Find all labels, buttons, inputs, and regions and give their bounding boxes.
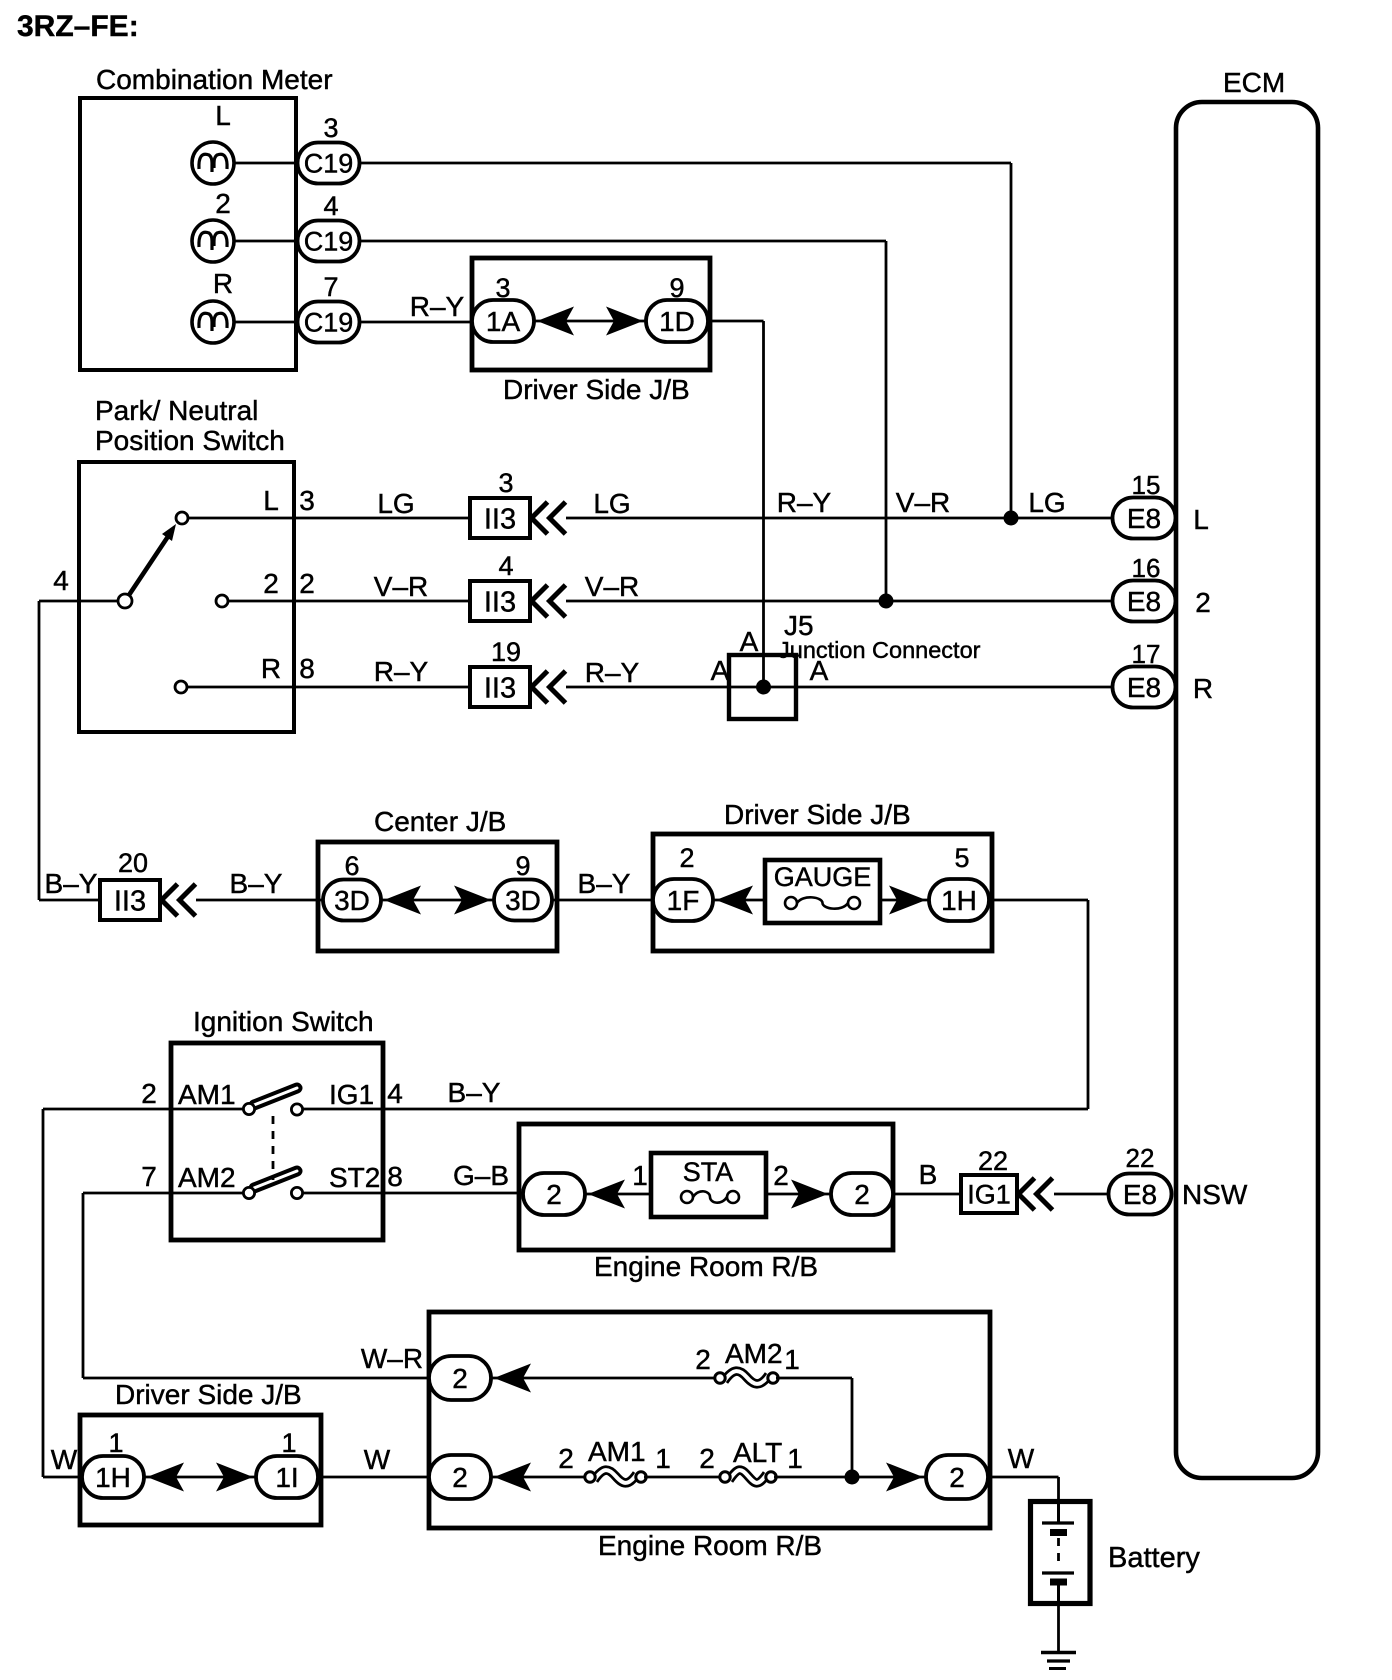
svg-text:9: 9	[515, 851, 530, 881]
svg-text:R: R	[213, 268, 233, 299]
svg-text:B–Y: B–Y	[45, 868, 98, 899]
svg-text:II3: II3	[484, 586, 516, 618]
svg-text:Driver Side J/B: Driver Side J/B	[724, 799, 911, 830]
svg-text:IG1: IG1	[329, 1079, 374, 1110]
svg-text:2: 2	[452, 1363, 468, 1394]
svg-text:22: 22	[978, 1146, 1008, 1176]
svg-text:E8: E8	[1123, 1179, 1157, 1210]
svg-text:Combination Meter: Combination Meter	[96, 64, 333, 95]
svg-text:R–Y: R–Y	[374, 656, 429, 687]
svg-text:R–Y: R–Y	[410, 291, 465, 322]
svg-text:22: 22	[1126, 1143, 1155, 1173]
svg-text:3D: 3D	[505, 885, 541, 916]
svg-text:2: 2	[699, 1443, 715, 1474]
svg-text:2: 2	[949, 1462, 965, 1493]
svg-text:LG: LG	[1028, 487, 1065, 518]
svg-text:IG1: IG1	[967, 1180, 1011, 1210]
svg-text:Battery: Battery	[1108, 1542, 1200, 1574]
svg-text:1: 1	[784, 1344, 800, 1375]
svg-text:LG: LG	[593, 488, 630, 519]
svg-text:R–Y: R–Y	[585, 657, 640, 688]
svg-text:3: 3	[323, 113, 338, 143]
svg-text:AM1: AM1	[588, 1436, 646, 1467]
svg-text:Driver Side J/B: Driver Side J/B	[115, 1379, 302, 1410]
svg-text:2: 2	[679, 843, 694, 873]
svg-text:1D: 1D	[659, 306, 695, 337]
svg-text:3: 3	[299, 485, 315, 516]
svg-text:V–R: V–R	[374, 571, 428, 602]
svg-text:4: 4	[53, 565, 69, 596]
svg-text:V–R: V–R	[896, 487, 950, 518]
svg-text:2: 2	[546, 1179, 562, 1210]
svg-text:1A: 1A	[486, 306, 521, 337]
svg-text:GAUGE: GAUGE	[774, 862, 872, 892]
svg-text:R: R	[1193, 673, 1213, 704]
svg-text:1: 1	[787, 1443, 803, 1474]
svg-text:2: 2	[773, 1160, 789, 1191]
svg-text:2: 2	[263, 568, 279, 599]
svg-text:2: 2	[854, 1179, 870, 1210]
svg-text:II3: II3	[114, 885, 146, 917]
svg-text:5: 5	[954, 843, 969, 873]
svg-text:L: L	[215, 100, 231, 131]
svg-text:W: W	[1008, 1443, 1035, 1474]
svg-text:B–Y: B–Y	[578, 868, 631, 899]
svg-text:A: A	[711, 655, 730, 686]
svg-text:AM2: AM2	[178, 1162, 236, 1193]
svg-text:L: L	[1193, 504, 1209, 535]
svg-text:8: 8	[387, 1161, 403, 1192]
svg-text:8: 8	[299, 653, 315, 684]
svg-text:A: A	[810, 655, 829, 686]
svg-text:15: 15	[1132, 470, 1161, 500]
svg-text:1H: 1H	[95, 1462, 131, 1493]
svg-text:LG: LG	[377, 488, 414, 519]
svg-text:Engine Room R/B: Engine Room R/B	[594, 1251, 818, 1282]
svg-text:1I: 1I	[275, 1462, 298, 1493]
svg-text:E8: E8	[1127, 672, 1161, 703]
svg-text:NSW: NSW	[1182, 1179, 1248, 1210]
svg-text:R: R	[261, 653, 281, 684]
svg-text:II3: II3	[484, 672, 516, 704]
svg-text:2: 2	[695, 1344, 711, 1375]
svg-text:Park/ Neutral: Park/ Neutral	[95, 395, 258, 426]
svg-text:E8: E8	[1127, 586, 1161, 617]
svg-text:17: 17	[1132, 639, 1161, 669]
svg-text:AM1: AM1	[178, 1079, 236, 1110]
svg-text:1: 1	[108, 1428, 123, 1458]
svg-text:3RZ–FE:: 3RZ–FE:	[17, 10, 139, 43]
svg-text:STA: STA	[683, 1157, 734, 1187]
svg-text:16: 16	[1132, 553, 1161, 583]
svg-text:G–B: G–B	[453, 1160, 509, 1191]
svg-text:W: W	[364, 1444, 391, 1475]
svg-text:2: 2	[558, 1443, 574, 1474]
svg-text:1: 1	[281, 1428, 296, 1458]
svg-text:1F: 1F	[667, 885, 700, 916]
svg-text:W–R: W–R	[361, 1343, 423, 1374]
svg-text:II3: II3	[484, 503, 516, 535]
svg-text:Ignition Switch: Ignition Switch	[193, 1006, 374, 1037]
svg-text:V–R: V–R	[585, 571, 639, 602]
svg-text:W: W	[51, 1444, 78, 1475]
svg-text:E8: E8	[1127, 503, 1161, 534]
svg-text:2: 2	[299, 568, 315, 599]
svg-text:4: 4	[387, 1078, 403, 1109]
svg-text:6: 6	[344, 851, 359, 881]
svg-text:4: 4	[323, 191, 338, 221]
svg-text:1: 1	[655, 1443, 671, 1474]
svg-text:3D: 3D	[334, 885, 370, 916]
svg-text:Engine Room R/B: Engine Room R/B	[598, 1530, 822, 1561]
svg-text:L: L	[263, 485, 279, 516]
svg-text:Position Switch: Position Switch	[95, 425, 285, 456]
svg-text:2: 2	[215, 188, 231, 219]
svg-text:1: 1	[632, 1160, 648, 1191]
svg-text:B: B	[919, 1159, 938, 1190]
svg-text:2: 2	[141, 1078, 157, 1109]
svg-text:3: 3	[498, 468, 513, 498]
svg-text:ALT: ALT	[733, 1437, 782, 1468]
svg-text:B–Y: B–Y	[448, 1077, 501, 1108]
svg-text:ECM: ECM	[1223, 67, 1285, 98]
svg-text:Junction Connector: Junction Connector	[778, 637, 981, 663]
svg-text:ST2: ST2	[329, 1162, 380, 1193]
svg-text:C19: C19	[304, 227, 354, 257]
svg-text:AM2: AM2	[725, 1338, 783, 1369]
svg-text:A: A	[740, 626, 759, 657]
svg-text:3: 3	[495, 273, 510, 303]
svg-text:C19: C19	[304, 149, 354, 179]
svg-text:2: 2	[452, 1462, 468, 1493]
svg-text:9: 9	[669, 273, 684, 303]
svg-text:R–Y: R–Y	[777, 487, 832, 518]
svg-text:Center J/B: Center J/B	[374, 806, 506, 837]
svg-text:1H: 1H	[941, 885, 977, 916]
svg-text:7: 7	[141, 1161, 157, 1192]
svg-text:19: 19	[491, 637, 521, 667]
svg-text:C19: C19	[304, 308, 354, 338]
svg-text:20: 20	[118, 848, 148, 878]
svg-text:7: 7	[323, 272, 338, 302]
svg-text:B–Y: B–Y	[230, 868, 283, 899]
svg-text:4: 4	[498, 551, 513, 581]
svg-text:2: 2	[1195, 587, 1211, 618]
svg-text:Driver Side J/B: Driver Side J/B	[503, 374, 690, 405]
